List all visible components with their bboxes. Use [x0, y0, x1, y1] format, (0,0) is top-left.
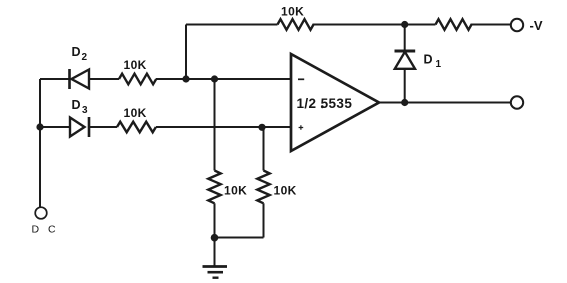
- svg-text:-V: -V: [530, 18, 543, 33]
- svg-text:10K: 10K: [224, 184, 247, 198]
- svg-text:1/2 5535: 1/2 5535: [297, 96, 353, 111]
- svg-text:10K: 10K: [274, 184, 297, 198]
- svg-text:1: 1: [436, 59, 442, 70]
- svg-text:D C: D C: [32, 224, 59, 236]
- svg-text:D: D: [72, 98, 81, 112]
- svg-text:3: 3: [82, 105, 88, 116]
- svg-text:10K: 10K: [124, 106, 147, 120]
- svg-text:10K: 10K: [124, 58, 147, 72]
- svg-text:10K: 10K: [281, 5, 304, 19]
- svg-text:D: D: [72, 45, 81, 59]
- svg-text:2: 2: [82, 52, 88, 63]
- svg-text:D: D: [424, 53, 433, 67]
